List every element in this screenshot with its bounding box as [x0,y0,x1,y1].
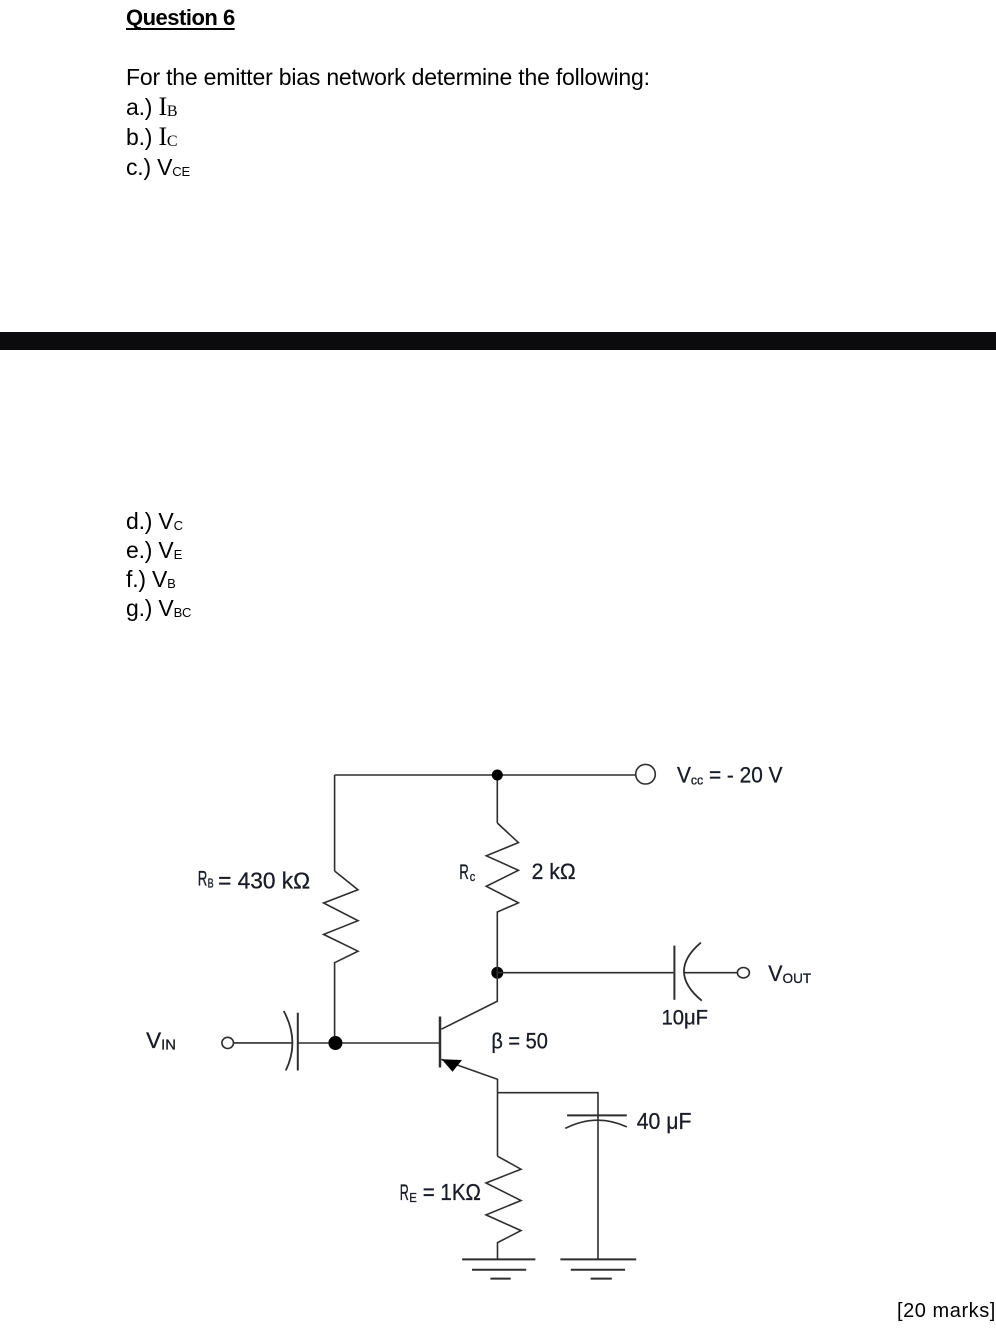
svg-text:= 1KΩ: = 1KΩ [423,1179,481,1205]
svg-text:E: E [409,1190,417,1205]
svg-text:10μF: 10μF [662,1007,709,1030]
svg-text:40 μF: 40 μF [637,1108,692,1134]
svg-text:c: c [470,869,476,884]
svg-text:2 kΩ: 2 kΩ [532,859,576,884]
svg-text:B: B [208,876,214,891]
svg-text:R: R [198,868,208,891]
svg-text:= 430 kΩ: = 430 kΩ [218,868,310,894]
svg-text:Vcc = - 20 V: Vcc = - 20 V [677,763,783,788]
svg-text:R: R [400,1180,409,1205]
svg-text:VOUT: VOUT [768,961,811,986]
svg-text:R: R [459,861,469,884]
svg-text:β = 50: β = 50 [491,1028,548,1053]
svg-text:VIN: VIN [146,1028,176,1054]
